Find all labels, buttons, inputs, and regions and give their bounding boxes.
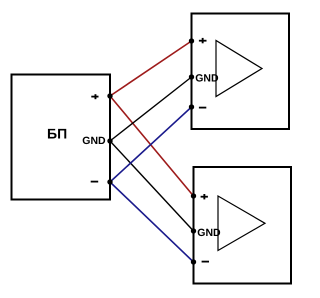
wire GND to U1 GND (black) <box>110 77 192 141</box>
svg-text:GND: GND <box>82 135 106 147</box>
op-amp triangle U1 <box>216 41 262 97</box>
label U2 - <box>202 261 209 263</box>
amplifier box U1 (top) <box>192 14 290 130</box>
wire -V to U2 - (blue) <box>110 182 194 262</box>
node BP GND <box>107 138 112 143</box>
label U1 - <box>199 107 206 109</box>
label U1 + <box>199 38 207 43</box>
node U1 + <box>189 38 194 43</box>
wire +V to U2 + (red) <box>110 96 194 196</box>
node U2 GND <box>191 228 196 233</box>
node BP - <box>107 179 112 184</box>
wire -V to U1 - (blue) <box>110 107 192 182</box>
node U2 - <box>191 259 196 264</box>
node U1 - <box>189 104 194 109</box>
power supply box BP <box>12 75 111 200</box>
op-amp triangle U2 <box>218 196 265 251</box>
wire +V to U1 + (red) <box>110 41 192 96</box>
label U2 + <box>201 194 208 199</box>
label BP + <box>91 94 98 99</box>
svg-text:GND: GND <box>195 73 219 85</box>
node BP + <box>107 93 112 98</box>
node U1 GND <box>189 74 194 79</box>
svg-text:БП: БП <box>47 126 67 142</box>
label BP - <box>91 181 99 183</box>
node U2 + <box>191 193 196 198</box>
svg-text:GND: GND <box>197 227 221 239</box>
amplifier box U2 (bottom) <box>194 167 292 284</box>
wire GND to U2 GND (black) <box>110 141 194 231</box>
